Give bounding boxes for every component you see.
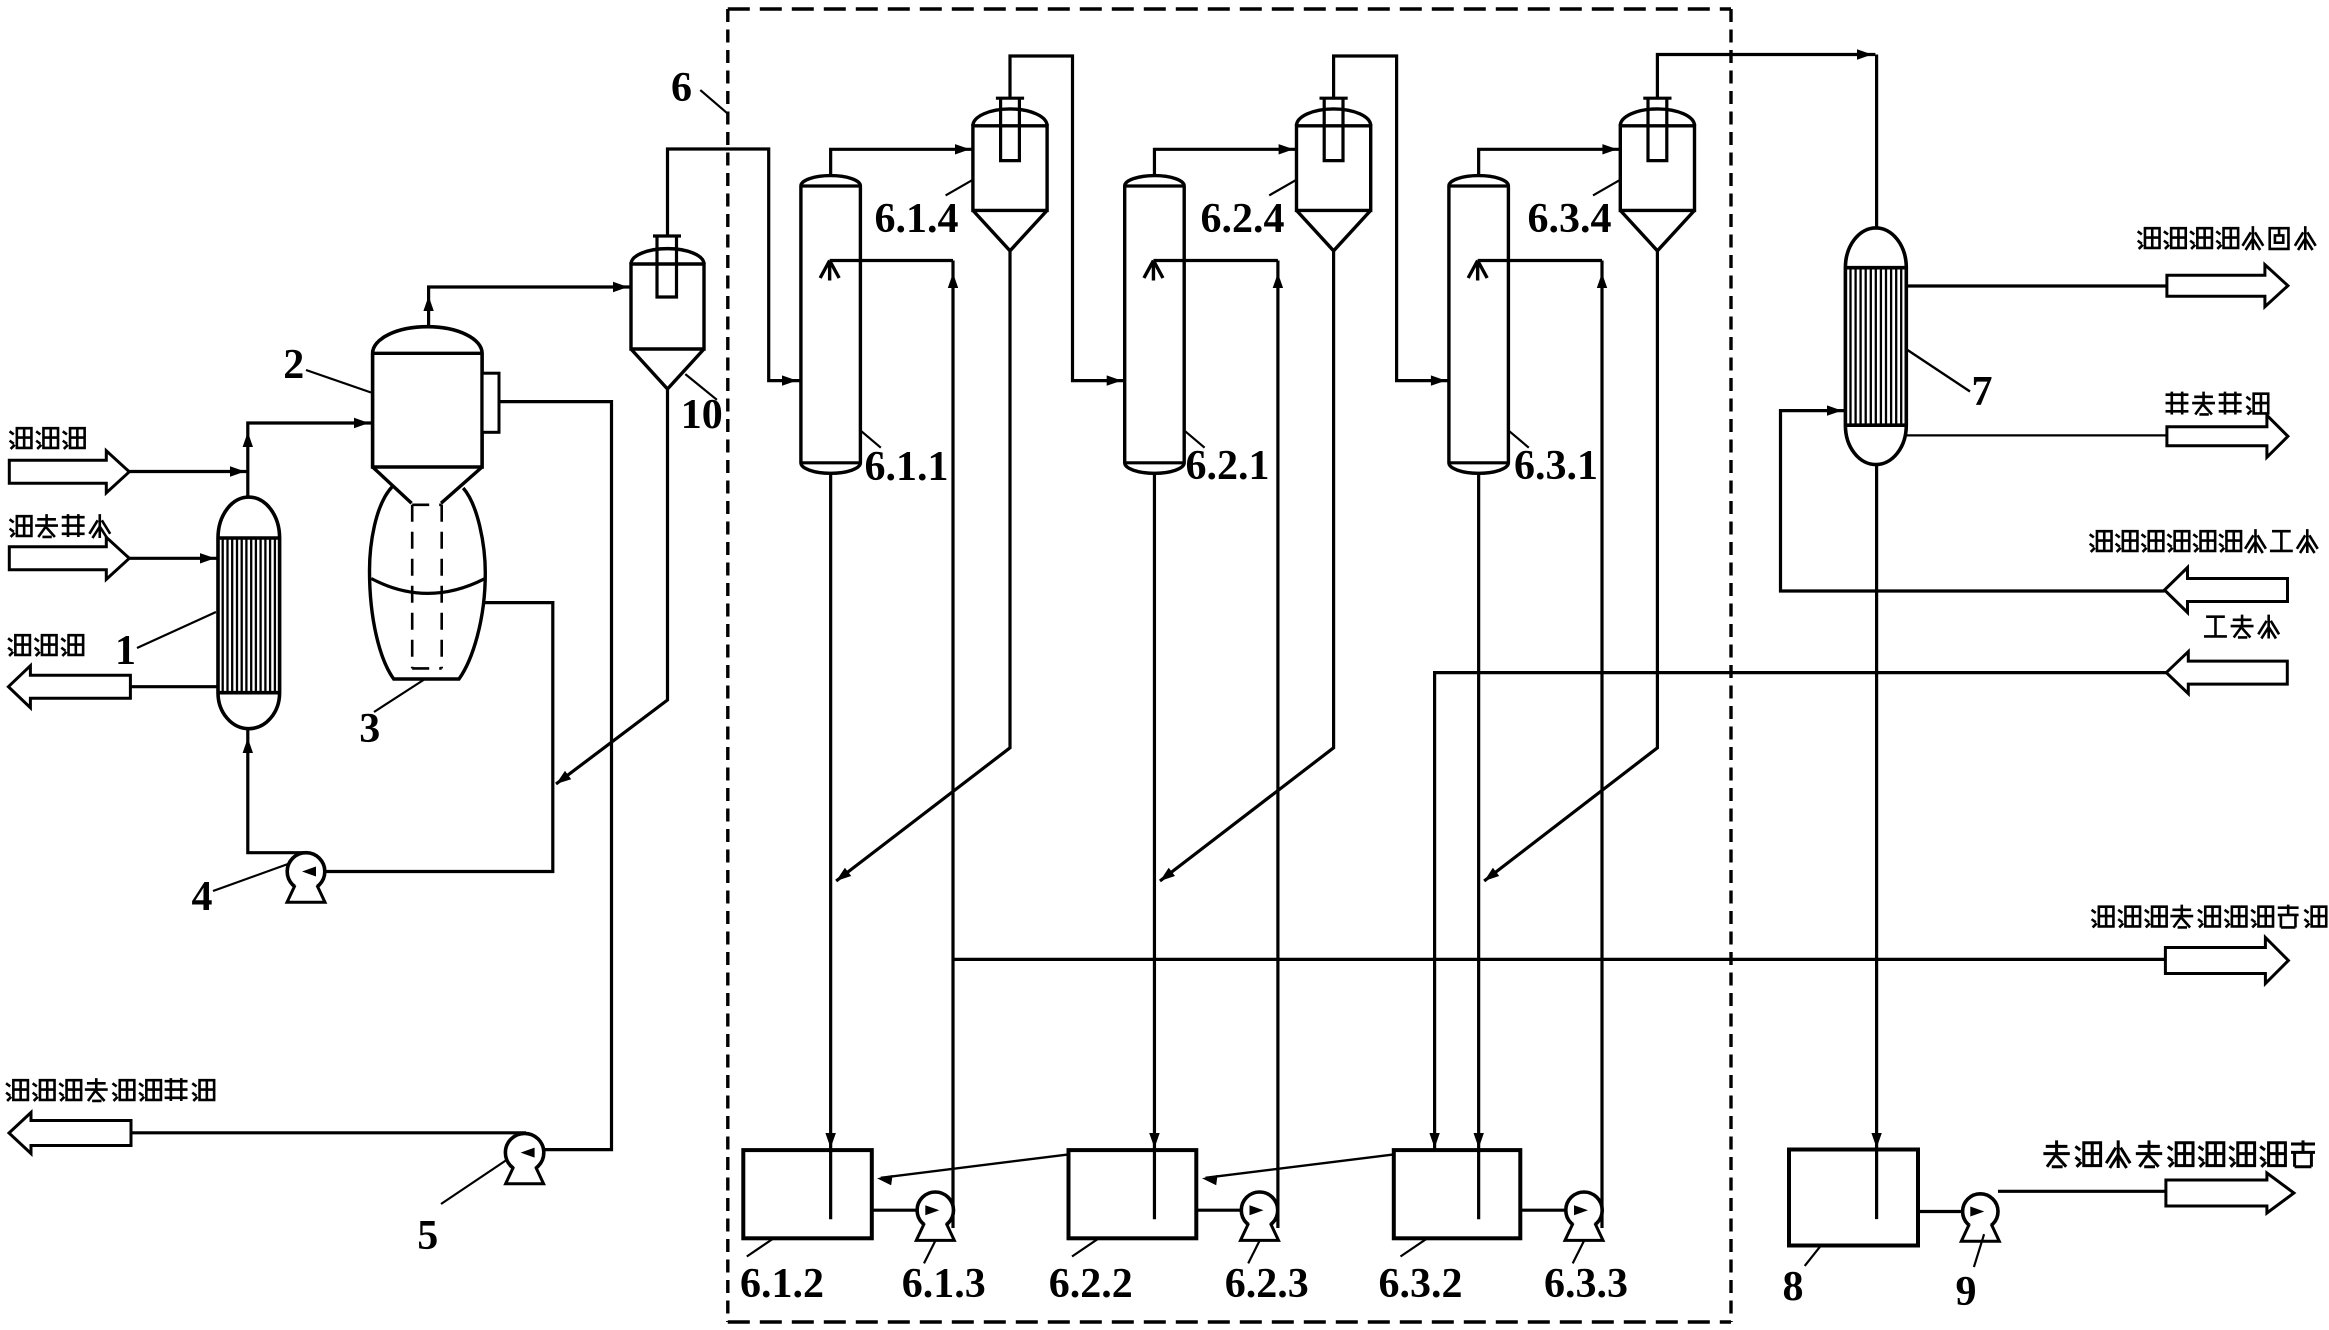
wire: cooling water supply to condenser 7 (1781, 411, 2165, 591)
wire: tank 6.2.2 overflow to tank 6.1.2 (881, 1154, 1069, 1177)
wire: concentrated acid line to pump 5 (499, 402, 612, 1150)
spray nozzle in column 6.2.1 (1144, 261, 1163, 281)
washing column 6.1.1 (801, 176, 861, 474)
svg-text:6.3.1: 6.3.1 (1514, 443, 1598, 489)
label text: dilute phosphoric acid (稀磷酸) (10, 428, 85, 449)
wire: downcomer dip pipe inside tank 6.3.2 (1477, 1150, 1480, 1219)
wire: process water to tank 6.3.2 (1435, 673, 2167, 1150)
wire: spray feed line of column 6.1.1 (830, 259, 953, 262)
spray nozzle in column 6.3.1 (1468, 261, 1487, 281)
label 8 leader (1805, 1246, 1821, 1266)
pump 6.2.3 (1241, 1192, 1277, 1228)
label 1 leader (137, 612, 216, 648)
wire: separator 3 outlet to pump 4 suction (325, 603, 553, 872)
wire: fluosilicic acid line (953, 958, 2164, 961)
wire: downcomer dip pipe inside tank 6.1.2 (829, 1150, 832, 1219)
label text: concentrated acid to cooling system (浓磷酸去冷却系统) (6, 1078, 214, 1101)
wire: condensate from exchanger 1 (130, 685, 218, 688)
wire: column 6.2.1 overhead to cyclone 6.2.4 (1154, 149, 1296, 175)
wire: tank 6.3.2 overflow to tank 6.2.2 (1206, 1154, 1394, 1177)
wire: cyclone 6.2.4 underflow to column downcomer (1160, 251, 1334, 881)
label 6.1.4 leader (946, 180, 972, 195)
washing column 6.2.1 (1125, 176, 1185, 474)
wire: pump 5 discharge to concentrated acid outlet (131, 1131, 526, 1134)
pump 6.1.3 (917, 1192, 953, 1228)
wire: evaporator 2 vapour outlet to cyclone 10 (429, 287, 631, 327)
label text: condensate (冷凝液) (8, 635, 83, 656)
svg-text:8: 8 (1783, 1264, 1804, 1310)
label 6.2.2 leader (1072, 1238, 1099, 1256)
wire: spray feed line of column 6.2.1 (1153, 259, 1277, 262)
svg-text:6.3.3: 6.3.3 (1544, 1261, 1628, 1307)
input arrow: dilute phosphoric acid (9, 451, 129, 493)
wire: tank 6.3.2 outlet to pump 6.3.3 (1520, 1209, 1566, 1212)
svg-text:6.1.2: 6.1.2 (740, 1261, 824, 1307)
cyclone 6.1.4 (973, 109, 1047, 126)
label 5 leader (441, 1159, 508, 1204)
evaporator 2 bottom cone (373, 467, 483, 503)
pump 5 (505, 1133, 543, 1171)
separator 3 liquid level (371, 579, 484, 594)
svg-text:6.2.2: 6.2.2 (1049, 1261, 1133, 1307)
label 6.1.1 leader (861, 431, 881, 448)
spray nozzle in column 6.1.1 (820, 261, 839, 281)
svg-text:6.3.2: 6.3.2 (1379, 1261, 1463, 1307)
label text: vacuum system (真空系统) (2166, 392, 2269, 415)
heat exchanger 1 tube bundle hatch (222, 538, 224, 693)
separator 3 internal dip pipe (dashed) (412, 505, 442, 669)
wire: cyclone 6.2.4 overhead to next column (1334, 56, 1449, 381)
cyclone 6.2.4 (1297, 109, 1371, 126)
wire: pump 6.1.3 discharge riser (951, 261, 954, 1229)
wire: cyclone 10 overhead to first washing column (668, 149, 801, 381)
output arrow: clean circulating water return (2167, 265, 2288, 307)
pump 6.3.3 (1566, 1192, 1602, 1228)
wire: cyclone 10 underflow to pump 4 suction line (556, 389, 668, 784)
output arrow: vacuum system (2167, 415, 2288, 457)
label 9 leader (1974, 1234, 1984, 1267)
wire: column 6.2.1 downcomer to tank 6.2.2 (1153, 473, 1156, 1219)
wire: pump 6.3.3 discharge riser (1600, 261, 1603, 1229)
evaporator vessel 2 (373, 327, 483, 467)
label text: fluorine water to acid filter (含氟水去磷酸过滤机) (2043, 1140, 2315, 1168)
svg-text:2: 2 (283, 342, 304, 388)
wire: column 6.3.1 downcomer to tank 6.3.2 (1477, 473, 1480, 1219)
wire: column 6.1.1 overhead to cyclone 6.1.4 (831, 149, 973, 175)
cyclone 6.3.4 (1620, 109, 1694, 126)
wire: steam to heat exchanger 1 (129, 557, 218, 560)
wire: cyclone 6.3.4 underflow to column downcomer (1484, 251, 1657, 881)
wire: column 6.3.1 overhead to cyclone 6.3.4 (1479, 149, 1621, 175)
input arrow: low pressure steam (9, 537, 129, 579)
wire: condenser 7 bottom outlet to tank 8 (1875, 465, 1878, 1220)
wire: pump 9 discharge to filter (1998, 1190, 2167, 1193)
svg-text:6.2.3: 6.2.3 (1225, 1261, 1309, 1307)
wire: spray feed line of column 6.3.1 (1478, 259, 1602, 262)
wire: tank 6.2.2 outlet to pump 6.2.3 (1196, 1209, 1241, 1212)
svg-text:9: 9 (1956, 1269, 1977, 1315)
wire: dilute acid feed to riser (129, 470, 248, 473)
wire: tank 8 outlet to pump 9 (1918, 1210, 1963, 1213)
output arrow: condensate (8, 666, 130, 708)
wire: column 6.1.1 downcomer to tank 6.1.2 (829, 473, 832, 1219)
svg-text:1: 1 (115, 628, 136, 674)
pump 4 (287, 853, 325, 891)
label 6.3.4 leader (1593, 180, 1619, 195)
label 7 leader (1906, 349, 1970, 392)
output arrow: fluosilicic acid to storage (2165, 938, 2288, 984)
wire: cyclone 6.1.4 underflow to column downcomer (836, 251, 1010, 881)
svg-text:6.2.4: 6.2.4 (1201, 196, 1285, 242)
input arrow: cooling water supply (2165, 568, 2288, 613)
pump 9 (1963, 1194, 1998, 1229)
label 6.1.3 leader (924, 1241, 935, 1264)
svg-text:3: 3 (359, 706, 380, 752)
slurry tank 6.2.2 (1069, 1150, 1197, 1238)
wire: pump 6.2.3 discharge riser (1276, 261, 1279, 1229)
slurry tank 6.1.2 (743, 1150, 872, 1238)
label 10 leader (685, 374, 717, 400)
wire: exchanger-1 top riser to evaporator 2 (248, 423, 373, 497)
input arrow: process water (2166, 652, 2287, 694)
svg-text:4: 4 (192, 874, 213, 920)
svg-text:6.1.3: 6.1.3 (902, 1261, 986, 1307)
label 6.2.3 leader (1248, 1241, 1259, 1264)
wire: condenser 7 to vacuum system (1906, 434, 2167, 436)
wire: cyclone 6.3.4 overhead to condenser 7 (1657, 55, 1875, 99)
svg-text:5: 5 (417, 1213, 438, 1259)
evaporator 2 side nozzle (482, 373, 499, 432)
label 6.1.2 leader (747, 1238, 774, 1256)
slurry tank 6.3.2 (1394, 1150, 1521, 1238)
output arrow: concentrated phosphoric acid (9, 1113, 131, 1154)
condenser 7 tube bundle hatch (1849, 268, 1851, 426)
label text: clean circulating water return (清洁循环水回水) (2138, 226, 2316, 250)
output arrow: fluorine-containing water to filter (2166, 1173, 2294, 1213)
svg-text:6.2.1: 6.2.1 (1186, 443, 1270, 489)
wire: dip pipe inside tank 8 (1875, 1150, 1878, 1219)
svg-text:6.1.4: 6.1.4 (875, 196, 959, 242)
dashed boundary box of washing unit 6 (728, 7, 1731, 10)
heat exchanger 1 shell (218, 497, 280, 729)
svg-text:6: 6 (671, 65, 692, 111)
label 6.3.1 leader (1509, 431, 1529, 448)
svg-text:6.3.4: 6.3.4 (1528, 196, 1612, 242)
separator 3 body (370, 487, 486, 679)
wire: condenser 7 to water return arrow (1906, 284, 2167, 287)
label 6 leader (700, 90, 728, 114)
wire: exchanger 1 bottom to pump 4 discharge (248, 729, 306, 853)
label 4 leader (213, 864, 288, 891)
svg-text:7: 7 (1972, 369, 1993, 415)
label 6.3.3 leader (1573, 1241, 1584, 1264)
label 2 leader (306, 370, 371, 393)
fluorine water tank 8 (1789, 1150, 1918, 1246)
label 6.2.4 leader (1269, 180, 1295, 195)
label text: fluosilicic acid to storage tank (氟硅酸去氟硅酸贮槽) (2092, 905, 2327, 928)
label 6.2.1 leader (1185, 431, 1205, 448)
cyclone separator 10 (631, 249, 704, 264)
wire: downcomer dip pipe inside tank 6.2.2 (1153, 1150, 1156, 1219)
svg-text:10: 10 (681, 392, 723, 438)
wire: tank 6.1.2 outlet to pump 6.1.3 (872, 1209, 917, 1212)
condenser 7 shell (1845, 228, 1906, 465)
label text: process water (工艺水) (2204, 615, 2279, 639)
washing column 6.3.1 (1449, 176, 1509, 474)
wire: cyclone 6.1.4 overhead to next column (1010, 56, 1125, 381)
label text: clean circulating cooling water supply (清洁循环冷却水上水) (2090, 529, 2318, 553)
label 3 leader (374, 679, 425, 712)
svg-text:6.1.1: 6.1.1 (865, 444, 949, 490)
label text: low pressure steam (低压蒸汽) (10, 514, 111, 538)
label 6.3.2 leader (1401, 1238, 1428, 1256)
